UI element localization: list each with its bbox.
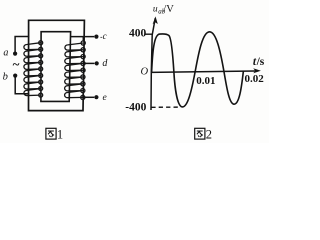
svg-text:~: ~ bbox=[13, 56, 20, 71]
terminal dot d bbox=[95, 61, 99, 65]
x-axis arrowhead bbox=[253, 68, 261, 73]
svg-text:0.01: 0.01 bbox=[196, 75, 215, 87]
primary winding (left limb, 9 turns: slanted lines + left arcs) bbox=[24, 43, 41, 96]
svg-text:c: c bbox=[103, 31, 107, 41]
400 tick bbox=[146, 33, 153, 35]
primary winding knot loops bbox=[39, 41, 43, 97]
svg-text:e: e bbox=[103, 93, 107, 103]
svg-text:a: a bbox=[3, 47, 8, 58]
y-axis arrowhead bbox=[153, 16, 158, 24]
secondary winding knot loops bbox=[81, 41, 86, 100]
transformer core inner rectangle (window) bbox=[41, 32, 71, 102]
svg-text:2: 2 bbox=[206, 128, 212, 142]
transformer core outer rectangle bbox=[29, 20, 85, 110]
svg-text:/V: /V bbox=[163, 4, 174, 15]
terminal dot b bbox=[13, 74, 17, 78]
small mark before c bbox=[100, 36, 102, 38]
terminal dot e bbox=[94, 95, 98, 99]
svg-text:O: O bbox=[141, 66, 149, 77]
svg-text:1: 1 bbox=[57, 128, 63, 142]
dashed line at -400 bbox=[151, 106, 181, 108]
svg-text:u: u bbox=[153, 4, 158, 14]
svg-text:b: b bbox=[3, 72, 8, 83]
wire terminal a bbox=[15, 37, 29, 54]
svg-text:-400: -400 bbox=[125, 102, 146, 114]
svg-text:0.02: 0.02 bbox=[245, 73, 265, 85]
terminal dot a bbox=[13, 52, 17, 56]
svg-text:400: 400 bbox=[129, 28, 147, 40]
caption 图1 glyph 图 bbox=[46, 128, 56, 139]
y-axis (slightly skewed scan) bbox=[151, 18, 155, 110]
wire terminal c bbox=[71, 37, 94, 41]
wire terminal d bbox=[82, 62, 94, 64]
sine curve u_ab(t) bbox=[152, 32, 244, 107]
wire terminal e bbox=[82, 96, 94, 98]
terminal dot c bbox=[94, 35, 98, 39]
secondary winding (right limb, 9 turns: slanted lines + left arcs) bbox=[65, 43, 84, 98]
wire terminal b bbox=[15, 76, 29, 94]
svg-text:/s: /s bbox=[256, 56, 265, 68]
x-axis bbox=[151, 71, 258, 73]
caption 图2 glyph 图 bbox=[195, 128, 205, 139]
